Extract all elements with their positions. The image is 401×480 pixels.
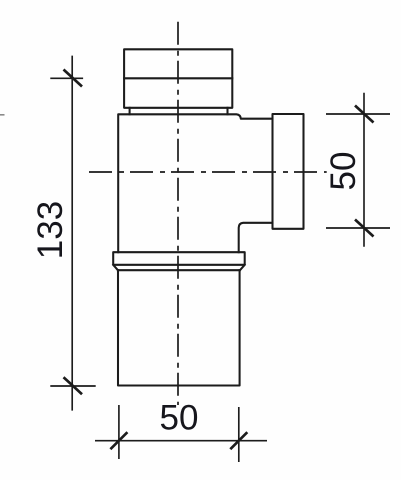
- vertical center line: [177, 22, 179, 405]
- collar: [113, 252, 245, 265]
- neck left edge: [129, 108, 131, 115]
- branch socket: [273, 114, 304, 229]
- horizontal center line: [89, 171, 327, 173]
- neck right edge: [226, 108, 228, 115]
- lower pipe top line: [118, 269, 240, 271]
- tick 50 right bottom: [355, 220, 374, 237]
- tick 50 bottom left: [110, 432, 127, 449]
- lower pipe: [118, 270, 240, 385]
- dim 133 line: [71, 56, 73, 411]
- dim 50 bottom right extension: [238, 407, 240, 462]
- tick 50 right top: [355, 106, 374, 123]
- svg-text:133: 133: [31, 201, 70, 259]
- svg-text:50: 50: [324, 152, 363, 191]
- dim 133 bottom extension: [50, 385, 95, 387]
- collar chamfer left: [113, 265, 118, 270]
- tick 133 top: [64, 70, 83, 87]
- dim 50 bottom line: [95, 440, 267, 442]
- dim 50 right line: [363, 93, 365, 247]
- collar chamfer right: [240, 265, 245, 270]
- tick 133 bottom: [64, 377, 83, 394]
- socket mid line: [124, 77, 232, 79]
- svg-text:50: 50: [160, 398, 199, 437]
- dim 133 top extension: [50, 77, 83, 79]
- edge artifact: [0, 114, 5, 116]
- top socket: [124, 49, 232, 108]
- dim 50 right bottom extension: [326, 227, 390, 229]
- body outline: [118, 114, 272, 252]
- tick 50 bottom right: [230, 432, 247, 449]
- dim 50 right top extension: [326, 113, 390, 115]
- dim 50 bottom left extension: [118, 405, 120, 459]
